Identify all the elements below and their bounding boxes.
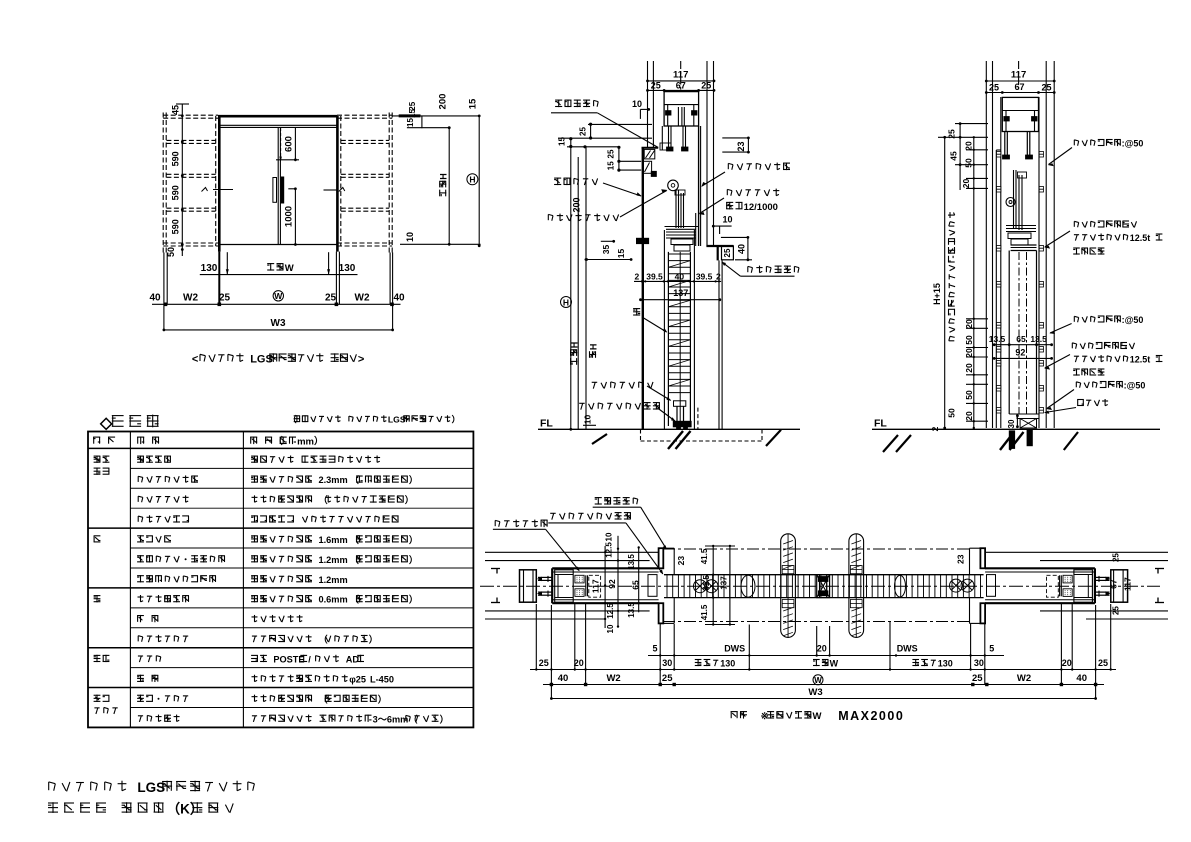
- plan: small connector lines: [585, 575, 587, 596]
- plan: leader tobukuro-mikiri: [595, 497, 638, 505]
- dim 23 right of mid-section: [722, 137, 748, 139]
- svg-text:1.2mm: 1.2mm: [319, 555, 348, 565]
- svg-text:MAX2000: MAX2000: [838, 709, 904, 723]
- svg-text:L-450: L-450: [370, 674, 394, 684]
- svg-text:15: 15: [607, 161, 616, 170]
- svg-text:35: 35: [601, 245, 611, 255]
- elevation door frame left jamb: [218, 116, 221, 252]
- dim line 130 / yukoW / 130: [200, 274, 358, 276]
- svg-text:65: 65: [1016, 334, 1026, 344]
- svg-text:15: 15: [616, 249, 626, 259]
- svg-text:23: 23: [736, 141, 746, 151]
- svg-text:10: 10: [604, 532, 613, 541]
- svg-text:DWS: DWS: [724, 644, 745, 654]
- svg-text:117: 117: [590, 579, 600, 593]
- elevation left leaf swing mark: [213, 189, 233, 191]
- svg-text:40: 40: [737, 244, 747, 254]
- elevation view: wall left edge dashed: [162, 113, 164, 253]
- svg-text:40: 40: [558, 673, 569, 684]
- dim 15 overall-H line with circled H: [478, 116, 480, 246]
- plan: ghost door dashed box + 117 label: [589, 575, 601, 597]
- svg-text:W: W: [274, 291, 283, 301]
- elevation right ext line door-top: [407, 127, 451, 129]
- dim 200 / yuko-H line: [448, 128, 450, 245]
- svg-text::@50: :@50: [1122, 139, 1144, 149]
- svg-text:39.5: 39.5: [696, 271, 713, 281]
- svg-text:20: 20: [961, 179, 971, 189]
- leader: tenken-mikiri label: [555, 100, 598, 108]
- svg-text:67: 67: [1109, 579, 1119, 589]
- svg-text:25: 25: [651, 81, 661, 91]
- svg-text:3～6mm（: 3～6mm（: [373, 714, 419, 724]
- plan: right end cap: [1111, 570, 1128, 602]
- svg-text:）: ）: [409, 595, 418, 605]
- svg-text:（: （: [350, 475, 360, 485]
- plan: meeting lock block: [817, 575, 830, 598]
- svg-text:25: 25: [219, 292, 231, 303]
- svg-text:H: H: [570, 342, 580, 349]
- elevation top dashed rows over pockets: [163, 114, 218, 116]
- guide roller: [674, 401, 686, 407]
- svg-text:30: 30: [662, 658, 672, 668]
- svg-text:）: ）: [440, 714, 449, 724]
- svg-text:15: 15: [406, 118, 415, 127]
- svg-text:25: 25: [1041, 82, 1051, 92]
- dim 40 right of mid-section: [721, 236, 749, 238]
- svg-text:W2: W2: [1017, 673, 1031, 684]
- elevation caption: [192, 353, 364, 365]
- svg-text:20: 20: [574, 658, 584, 668]
- svg-text:5: 5: [989, 644, 994, 654]
- dim line W3: [164, 329, 393, 331]
- svg-text:130: 130: [339, 263, 356, 274]
- svg-text:1000: 1000: [284, 206, 295, 227]
- plan: right wall lines: [985, 551, 1168, 553]
- small dims 25/15 at step: [618, 147, 620, 170]
- elevation right leaf swing mark: [324, 189, 337, 191]
- right-section centerline top: [1018, 61, 1020, 92]
- plan: dim row B (25/20/30/130/yukoW/130/30/20/25): [530, 669, 1116, 671]
- svg-text:92: 92: [607, 579, 617, 589]
- svg-text:117: 117: [1123, 577, 1133, 591]
- svg-text:25: 25: [972, 673, 983, 684]
- plan: dim row C (40/W2/25/W/25/W2/40): [543, 684, 1104, 686]
- svg-text:25: 25: [946, 129, 956, 139]
- svg-text:67: 67: [1014, 82, 1024, 92]
- plan: right pocket mouth tabs: [980, 548, 985, 568]
- svg-text:30: 30: [1007, 419, 1016, 428]
- elevation door frame right jamb: [336, 116, 339, 252]
- plan: sakizuke frame channel: [555, 570, 574, 602]
- svg-text:50: 50: [964, 390, 974, 400]
- svg-text:DWS: DWS: [897, 644, 918, 654]
- plan: left dim column (10/12.5/92/12.5/10): [604, 546, 606, 628]
- svg-text:25: 25: [662, 673, 673, 684]
- svg-text:45: 45: [948, 151, 958, 161]
- svg-text:W: W: [830, 659, 839, 669]
- svg-text::@50: :@50: [1124, 381, 1146, 391]
- leader: board furring 3: [1076, 381, 1145, 391]
- small dims 25/15 upper-left ext lines: [588, 123, 652, 125]
- plan: door strip (plan) outline: [664, 574, 984, 576]
- plan: hanger strap stadium shapes: [781, 534, 796, 638]
- plan: right cushion dotted blocks: [1063, 575, 1072, 583]
- svg-text:20: 20: [964, 319, 974, 329]
- svg-text:13.5: 13.5: [627, 554, 636, 570]
- svg-text:）: ）: [405, 495, 414, 505]
- drawing title line 2: [48, 802, 233, 817]
- svg-text:20: 20: [964, 348, 974, 358]
- svg-text:12.5t: 12.5t: [1130, 355, 1151, 365]
- door panel hatched strip (mid-section): [663, 230, 665, 429]
- svg-text:40: 40: [149, 292, 161, 303]
- svg-text:10: 10: [722, 215, 732, 225]
- svg-text:137: 137: [719, 576, 728, 590]
- spec table group separator lines: [88, 527, 473, 529]
- dim 13.5/65/13.5 right-section: [994, 344, 1051, 346]
- svg-text:（: （: [319, 694, 329, 704]
- plan: leader kussyon-zai (cushion): [495, 520, 547, 528]
- dim row 2/39.5/40/39.5/2: [634, 280, 721, 282]
- plan: right wall end brackets: [1155, 568, 1164, 570]
- svg-text:H+15: H+15: [932, 283, 942, 305]
- spec table item-group labels: [94, 456, 110, 463]
- svg-text:40: 40: [1076, 673, 1087, 684]
- plan: wheel ellipse right: [895, 575, 906, 597]
- svg-text::@50: :@50: [1122, 315, 1144, 325]
- mid-section centerline top: [680, 61, 682, 92]
- plan: note max2000: [731, 711, 747, 719]
- leader: board furring 2: [1074, 315, 1143, 325]
- svg-text:W3: W3: [808, 687, 822, 698]
- svg-text:25: 25: [989, 82, 999, 92]
- svg-text:※: ※: [761, 711, 769, 722]
- mid-section hanger straps: [668, 126, 670, 150]
- svg-text:POSTE: POSTE: [273, 655, 304, 665]
- svg-text:67: 67: [676, 81, 686, 91]
- dim line 40/W2/25/W/25/W2/40: [152, 303, 401, 305]
- svg-text:（: （: [350, 555, 360, 565]
- elevation handle bar on right leaf (solid): [281, 177, 284, 203]
- svg-text:590: 590: [171, 185, 181, 200]
- svg-text:）: ）: [452, 415, 461, 425]
- right-section wall stud lines: [985, 61, 987, 428]
- plan: right cap pins: [1096, 576, 1110, 578]
- svg-text:W: W: [814, 676, 822, 685]
- svg-text:0.6mm: 0.6mm: [319, 595, 348, 605]
- svg-text:◇: ◇: [99, 415, 113, 432]
- svg-text:）: ）: [409, 555, 418, 565]
- plan: right frame thick line: [1094, 568, 1096, 603]
- right-section hanger box: [1002, 97, 1038, 131]
- svg-text:2.3mm: 2.3mm: [319, 475, 348, 485]
- plan: lintel dash-dot lines across opening: [663, 548, 970, 550]
- svg-text:12.5t: 12.5t: [1130, 233, 1151, 243]
- hanger wheel / air cylinder circle: [668, 180, 679, 191]
- spec table inner row lines: [130, 467, 473, 469]
- plan: dim row D (W3): [551, 698, 1095, 700]
- pit dashed outline below FL: [640, 430, 642, 442]
- plan: mid vertical dim lines: [712, 546, 714, 625]
- mid-section dim 25/67/25: [648, 89, 715, 91]
- plan: guide roller pedestal block: [648, 575, 657, 597]
- svg-text:25: 25: [701, 81, 711, 91]
- dim 1000 on door: [294, 189, 296, 245]
- svg-text:15: 15: [558, 137, 567, 146]
- svg-text:5: 5: [652, 644, 657, 654]
- elevation handle on left leaf: [273, 178, 277, 203]
- dim 137: [641, 299, 720, 301]
- leader: tenken cover label: [554, 178, 598, 186]
- plan: leader guide roller pedestal (plan): [550, 512, 631, 520]
- svg-text:50: 50: [964, 158, 974, 168]
- svg-text:W2: W2: [355, 292, 370, 303]
- dim 600 on door: [280, 128, 282, 158]
- leader: gypsum board note 1: [1074, 221, 1136, 228]
- svg-text:41.5: 41.5: [702, 575, 711, 591]
- rail zone left edge line: [661, 126, 663, 150]
- plan: roller circles left: [694, 580, 719, 593]
- svg-text:92: 92: [1015, 347, 1025, 357]
- elevation wall right edge dashed: [388, 113, 390, 253]
- svg-text:（: （: [350, 535, 360, 545]
- elevation door sill line: [219, 244, 338, 246]
- mid-section dim 117: [648, 80, 715, 82]
- plan: door strip hatch: [666, 575, 668, 598]
- svg-text:13.5: 13.5: [989, 334, 1006, 344]
- svg-text:<: <: [192, 354, 198, 366]
- svg-text:25: 25: [1098, 658, 1108, 668]
- svg-text:23: 23: [956, 554, 966, 564]
- svg-text:10: 10: [583, 415, 593, 425]
- air cylinder bracket: [636, 238, 648, 244]
- svg-text:H: H: [589, 344, 599, 351]
- board pitch note rotated: [948, 212, 955, 341]
- plan: left end cap: [520, 570, 537, 602]
- board furring blocks on pocket faces: [997, 152, 1001, 158]
- floor rail right-section: [1017, 414, 1039, 419]
- svg-text:H: H: [469, 175, 475, 185]
- plan: right pocket thick lines: [985, 567, 1095, 569]
- plan: cushion material dotted blocks: [575, 575, 584, 583]
- leader: air cylinder label: [548, 214, 618, 222]
- elevation lintel thick line: [218, 115, 338, 118]
- plan: right ghost door dashed box: [1047, 575, 1059, 597]
- floor hatch strokes mid: [592, 434, 607, 444]
- floor hatch strokes right: [883, 435, 898, 452]
- spec table outer border: [88, 432, 473, 728]
- svg-text:（: （: [350, 595, 360, 605]
- wall lines below ranma: [718, 260, 720, 429]
- svg-text:25: 25: [1112, 606, 1121, 615]
- svg-text:）: ）: [409, 475, 418, 485]
- svg-text:41.5: 41.5: [700, 604, 709, 620]
- svg-text:200: 200: [572, 197, 582, 212]
- dim 92 right-section: [994, 357, 1051, 359]
- plan: dim row A (5/DWS/20/DWS/5): [648, 655, 1004, 657]
- svg-text:130: 130: [938, 659, 953, 669]
- plan: left pocket mouth tabs: [659, 548, 664, 568]
- door column right-section: [1008, 251, 1010, 415]
- svg-text:23: 23: [676, 556, 686, 566]
- svg-text:25: 25: [579, 127, 588, 136]
- plan: left wall end brackets: [491, 568, 500, 570]
- leader: guide roller pedestal label: [579, 402, 660, 410]
- svg-text:>: >: [358, 354, 364, 366]
- svg-text:25: 25: [325, 292, 337, 303]
- elevation LGS stud dashed rows: [166, 139, 215, 141]
- svg-text:40: 40: [393, 292, 405, 303]
- leader: calm base plate label: [728, 163, 790, 171]
- dims 35/15 mid-left: [601, 240, 615, 242]
- calm rail assembly: [675, 190, 677, 228]
- svg-text:39.5: 39.5: [646, 271, 663, 281]
- plan: left pocket liner lines: [552, 571, 658, 573]
- svg-text:20: 20: [1062, 658, 1072, 668]
- leader: gypsum board note 2: [1072, 342, 1134, 349]
- right-section left dim lines: [944, 137, 946, 428]
- svg-text:）: ）: [378, 694, 387, 704]
- svg-text:AD: AD: [346, 655, 360, 665]
- svg-text:W2: W2: [606, 673, 620, 684]
- svg-text:130: 130: [720, 659, 735, 669]
- svg-text:/: /: [308, 655, 311, 665]
- overall H dim line with circled H: [570, 139, 572, 430]
- svg-text:2: 2: [930, 426, 940, 431]
- svg-text:FL: FL: [540, 417, 553, 429]
- svg-text:15: 15: [468, 98, 479, 109]
- svg-text:1.2mm: 1.2mm: [319, 575, 348, 585]
- plan: roller circles right: [950, 579, 975, 592]
- calm base plate verticals: [698, 126, 700, 246]
- svg-text:50: 50: [964, 335, 974, 345]
- svg-text:12.5: 12.5: [606, 603, 615, 619]
- svg-text:1.6mm: 1.6mm: [319, 535, 348, 545]
- svg-text:15: 15: [408, 109, 417, 118]
- svg-text:25: 25: [723, 248, 732, 257]
- elevation bottom dashed rows: [163, 242, 218, 244]
- svg-text:40: 40: [675, 271, 685, 281]
- svg-text:20: 20: [964, 411, 974, 421]
- dim 200 / tsuri-H line: [585, 147, 587, 430]
- svg-text:45: 45: [171, 105, 181, 115]
- svg-text:）: ）: [369, 635, 378, 645]
- guide roller pedestal: [673, 421, 691, 427]
- inspection trim (tenken-mikiri) step: [642, 147, 659, 149]
- svg-text:65: 65: [631, 580, 641, 590]
- svg-text:130: 130: [201, 263, 218, 274]
- yuko-H dim line: [577, 157, 579, 429]
- svg-text:φ25: φ25: [349, 674, 366, 684]
- svg-text:200: 200: [438, 94, 449, 110]
- svg-text:FL: FL: [874, 417, 887, 429]
- svg-text:W2: W2: [183, 292, 198, 303]
- door top bracket right-section: [1011, 244, 1037, 246]
- svg-text:20: 20: [964, 141, 974, 151]
- svg-text:25: 25: [607, 149, 616, 158]
- svg-text:117: 117: [673, 70, 688, 81]
- leader: guide roller label: [592, 382, 653, 389]
- spec table column lines: [129, 432, 131, 728]
- svg-text:）: ）: [409, 535, 418, 545]
- svg-text:600: 600: [283, 136, 294, 152]
- svg-text:H: H: [563, 297, 569, 307]
- svg-text:（: （: [319, 495, 329, 505]
- svg-text:10: 10: [606, 624, 615, 633]
- spec table body text: [137, 456, 171, 463]
- elevation bottom extension verticals: [163, 253, 165, 330]
- right-section pocket inner lines: [1000, 97, 1002, 428]
- svg-text:20: 20: [817, 644, 827, 654]
- elevation right top extension line with thick segment: [392, 115, 479, 117]
- ranma board line: [695, 213, 697, 246]
- svg-text:LGS: LGS: [137, 780, 165, 795]
- leader: calm rail label: [727, 189, 779, 197]
- svg-text:41.5: 41.5: [700, 548, 709, 564]
- spec table header row line: [88, 447, 473, 449]
- svg-text:25: 25: [539, 658, 549, 668]
- svg-text:LGS: LGS: [388, 415, 406, 425]
- plan: left wall lines: [485, 551, 659, 553]
- svg-text:W: W: [285, 263, 294, 274]
- plan: bottom extension verticals: [535, 604, 537, 671]
- svg-text:13.5: 13.5: [1030, 334, 1047, 344]
- svg-text:30: 30: [974, 658, 984, 668]
- svg-text:2: 2: [716, 271, 721, 281]
- anchor bolts below FL: [1009, 431, 1015, 449]
- ranma trim area right side: [706, 245, 733, 247]
- svg-text:12/1000: 12/1000: [744, 202, 778, 213]
- svg-text:25: 25: [1112, 553, 1121, 562]
- right-section dim tick lines: [955, 123, 988, 125]
- svg-text:W3: W3: [271, 318, 286, 329]
- svg-text:590: 590: [171, 219, 181, 234]
- plan: right frame channel: [1074, 570, 1093, 602]
- spec table subtitle: [288, 415, 460, 425]
- svg-text:mm）: mm）: [297, 436, 323, 448]
- rail assembly right-section: [1006, 198, 1015, 207]
- svg-text:20: 20: [964, 363, 974, 373]
- svg-text:50: 50: [946, 408, 956, 418]
- elevation transom bottom lines: [219, 124, 338, 126]
- svg-text:10: 10: [632, 99, 642, 109]
- plan: center dash-dot line: [480, 585, 1160, 587]
- svg-text:13.5: 13.5: [627, 602, 636, 618]
- spec table header text: [93, 437, 115, 444]
- plan: right pocket liner lines: [985, 571, 1095, 573]
- svg-text:137: 137: [673, 288, 688, 298]
- svg-text:H: H: [439, 173, 449, 180]
- svg-text:12.5: 12.5: [604, 542, 613, 558]
- leader: board furring 1: [1074, 139, 1143, 149]
- elevation right ext line bottom: [400, 243, 481, 245]
- drawing title line 1: [49, 780, 255, 795]
- mid-section hanger box: [664, 92, 699, 126]
- svg-text:590: 590: [171, 151, 181, 166]
- right-section dim 117: [986, 80, 1054, 82]
- leader: ranma-mikiri label: [748, 266, 799, 274]
- dim 30 floor rail: [1016, 416, 1018, 427]
- svg-text:117: 117: [1011, 70, 1026, 81]
- right-section dim 25/67/25: [986, 92, 1054, 94]
- elevation left dimension line 45/590x3/50: [181, 104, 183, 256]
- svg-text:2: 2: [635, 271, 640, 281]
- plan: left pocket thick lines: [552, 567, 658, 569]
- svg-text:W: W: [813, 711, 822, 722]
- leader: floor rail label: [1077, 399, 1108, 406]
- elevation pocket inner dashed verticals: [215, 116, 217, 246]
- tobira (door) label: [633, 308, 640, 316]
